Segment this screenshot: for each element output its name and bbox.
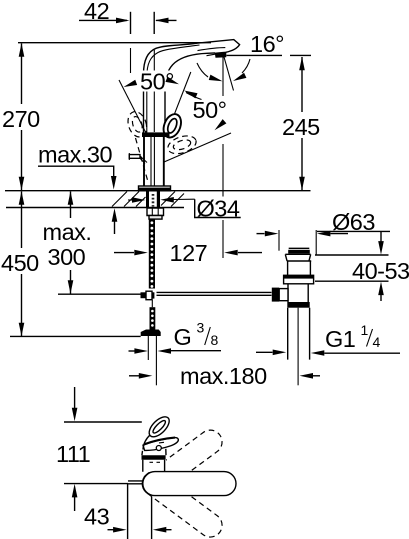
svg-text:16°: 16° bbox=[250, 31, 284, 57]
svg-text:max.180: max.180 bbox=[180, 363, 267, 389]
svg-text:max.: max. bbox=[43, 219, 92, 245]
lever ghost ellipse left bbox=[125, 109, 150, 139]
top reference line bbox=[18, 42, 211, 44]
extension line rod level bbox=[58, 293, 141, 295]
tailpipe center rod bbox=[297, 308, 299, 386]
svg-text:111: 111 bbox=[56, 441, 90, 467]
svg-text:1: 1 bbox=[361, 322, 369, 338]
side view body dashes bbox=[150, 461, 161, 463]
side view lever dome dark bbox=[142, 455, 166, 460]
pop-up ball knob dark bbox=[272, 288, 279, 302]
spout head crease lower bbox=[207, 53, 226, 56]
angle 50 first left leg bbox=[119, 80, 147, 134]
angle 16 slant line bbox=[224, 57, 234, 91]
diameter 34 arrows bbox=[128, 199, 134, 201]
side view body cylinder bbox=[143, 460, 165, 472]
dimension 42 line left bbox=[79, 19, 127, 21]
faucet spout lower curve bbox=[165, 53, 215, 133]
dimension 245 line bbox=[301, 57, 303, 112]
diameter 34 leader and text bbox=[195, 199, 241, 217]
counter hatching left bbox=[112, 192, 146, 207]
lever loop solid bbox=[160, 111, 184, 140]
dimension 40-53 extension lines bbox=[315, 254, 389, 256]
extension line outlet vertical bbox=[222, 57, 224, 96]
svg-text:3: 3 bbox=[197, 320, 205, 336]
angle 50 first right leg bbox=[166, 72, 191, 137]
drain extension line left bbox=[278, 230, 280, 251]
angle 50 second lower leg bbox=[164, 133, 231, 162]
svg-text:43: 43 bbox=[84, 504, 110, 530]
extension line spout level bbox=[64, 483, 128, 485]
dimension max.30 leader bbox=[38, 166, 114, 178]
drain body walls bbox=[288, 261, 311, 275]
angle 50 first right arrow bbox=[165, 77, 180, 87]
pop-up rod knob bbox=[129, 155, 140, 159]
dimension 42 tick right bbox=[153, 12, 155, 34]
svg-text:8: 8 bbox=[211, 332, 219, 348]
dimension 270 line bbox=[21, 44, 23, 105]
svg-text:40-53: 40-53 bbox=[352, 258, 409, 284]
svg-text:max.30: max.30 bbox=[38, 142, 112, 168]
side view body column left bbox=[127, 484, 129, 539]
counter bottom line bbox=[6, 207, 184, 209]
dimension 127 left arrow bbox=[114, 252, 134, 254]
hose nut bbox=[141, 330, 161, 337]
angle 50 second lower arrow bbox=[213, 119, 227, 132]
aerator bbox=[215, 52, 227, 57]
body joint band bbox=[142, 132, 170, 137]
svg-text:50°: 50° bbox=[193, 97, 227, 123]
outlet level line bbox=[227, 54, 283, 56]
side view spout stub bbox=[128, 481, 143, 484]
extension line hose end bbox=[10, 335, 141, 337]
extension line top of lever bbox=[64, 421, 145, 423]
lower body inner line bbox=[150, 137, 152, 186]
supply pipe right wall bbox=[155, 336, 157, 385]
drain shoulder bbox=[287, 260, 311, 262]
svg-text:270: 270 bbox=[2, 106, 40, 132]
thread G3/8 arrows bbox=[129, 350, 135, 352]
mounting nut bbox=[147, 208, 164, 216]
side view cartridge dome bbox=[142, 449, 166, 455]
dimension 42 line right bbox=[156, 19, 177, 21]
lever ghost ellipse middle bbox=[166, 133, 199, 157]
pop-up ball housing bbox=[279, 289, 288, 301]
svg-text:G: G bbox=[174, 324, 192, 350]
pop-up horizontal rod bbox=[157, 291, 272, 293]
svg-text:Ø34: Ø34 bbox=[197, 196, 240, 222]
supply pipe left wall bbox=[147, 336, 149, 360]
angle 50 second upper arrow bbox=[183, 88, 198, 98]
dimension 43 arrows bbox=[108, 529, 114, 531]
dimension 42 tick left bbox=[130, 12, 132, 34]
svg-text:245: 245 bbox=[282, 114, 320, 140]
counter hatching right bbox=[161, 192, 184, 207]
lower body left wall bbox=[143, 137, 145, 186]
svg-text:4: 4 bbox=[373, 334, 381, 350]
angle 16 left arrow bbox=[197, 63, 208, 77]
mounting shank left wall bbox=[146, 191, 149, 207]
side view lever indicator bbox=[156, 446, 161, 451]
spout head crease upper bbox=[198, 48, 226, 51]
body mask bbox=[142, 412, 166, 472]
dimension 40-53 arrows bbox=[380, 232, 382, 242]
mounting shank right wall bbox=[157, 191, 160, 207]
dimension max.300 line bbox=[70, 192, 72, 219]
dashed lever stem line bbox=[136, 138, 148, 180]
thread G1 1/4 arrows bbox=[256, 351, 273, 353]
knockout behind first 50 text bbox=[137, 71, 182, 92]
threaded rod bbox=[149, 219, 155, 288]
drain locknut bbox=[284, 275, 314, 284]
drain flange sides bbox=[285, 254, 310, 260]
drain compression nut bbox=[287, 302, 309, 308]
base plinth bbox=[139, 186, 171, 191]
side view lever tick bbox=[159, 441, 164, 444]
lower body seam bbox=[153, 137, 155, 186]
dimension 450 line bbox=[21, 192, 23, 249]
drain flange rim bbox=[288, 250, 310, 254]
drain extension line right bbox=[315, 230, 317, 255]
drain lower body bbox=[288, 284, 308, 302]
lower body right wall bbox=[163, 137, 165, 186]
side view lever blade bbox=[143, 438, 178, 451]
side view dashed swivel upper bbox=[137, 425, 226, 500]
washer bbox=[149, 216, 162, 220]
side view lever ring bbox=[146, 413, 173, 440]
angle 50 first left arrow bbox=[123, 80, 138, 90]
drain flange top bbox=[289, 247, 310, 249]
svg-text:G1: G1 bbox=[325, 326, 355, 352]
dimension 127 right arrow bbox=[238, 252, 262, 254]
svg-text:450: 450 bbox=[1, 250, 39, 276]
svg-text:300: 300 bbox=[48, 244, 86, 270]
faucet spout front seam bbox=[153, 50, 155, 132]
side view lever blade edge bbox=[144, 438, 175, 445]
tailpipe walls bbox=[288, 308, 310, 360]
threaded stud lower bbox=[151, 300, 153, 308]
dimension max.30 lower arrow bbox=[114, 220, 116, 234]
diameter 63 arrows bbox=[257, 233, 265, 235]
faucet spout outer curve bbox=[144, 40, 240, 133]
counter top line bbox=[5, 190, 311, 192]
side view body column right bbox=[151, 497, 153, 539]
extension line 42 left lower bbox=[130, 48, 132, 73]
dimension 111 line bbox=[74, 387, 76, 410]
dimension max.180 arrows bbox=[129, 375, 139, 377]
side view spout stadium bbox=[143, 472, 236, 496]
shank thread dots bbox=[152, 194, 155, 207]
side view lever arm bbox=[143, 435, 151, 450]
angle 16 right arrow bbox=[242, 59, 250, 73]
faucet spout inner curve bbox=[147, 45, 200, 133]
svg-text:127: 127 bbox=[170, 240, 208, 266]
side view dashed swivel lower bbox=[137, 467, 226, 539]
rod connector bbox=[141, 292, 147, 298]
